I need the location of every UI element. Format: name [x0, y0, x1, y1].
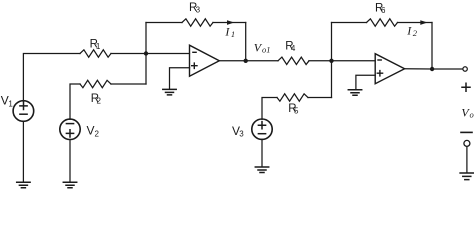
op-amp U1 minus sign [193, 51, 196, 53]
wire R5 left to V3 top [262, 98, 277, 120]
ground G3 [163, 89, 176, 95]
op-amp U1 [190, 45, 220, 76]
op-amp U2 plus sign [377, 71, 382, 76]
resistor R6 [367, 19, 398, 26]
V3 minus sign [258, 133, 265, 135]
wire feedback1 down to output node [245, 23, 247, 61]
current arrow I2 [420, 20, 427, 25]
wire R3 right segment [213, 22, 246, 24]
terminal circle bottom [464, 140, 470, 146]
svg-text:3: 3 [239, 130, 244, 139]
ground G1 [17, 182, 30, 188]
output port minus sign [461, 131, 472, 133]
svg-text:1: 1 [96, 42, 101, 51]
wire node B up to R6 [331, 23, 333, 61]
ground G4 [255, 167, 268, 173]
V3 plus sign [258, 122, 265, 129]
wire feedback2 down to output node [431, 23, 433, 70]
ground G2 [63, 182, 76, 188]
wire R1 right to op-amp minus input [111, 53, 190, 55]
voltage source V3 [252, 119, 272, 139]
svg-text:1: 1 [231, 29, 235, 39]
svg-text:3: 3 [196, 6, 201, 15]
wire R4 right to op-amp U2 minus input [309, 60, 375, 62]
wire V2 bottom to ground [69, 140, 71, 183]
op-amp U1 plus sign [192, 63, 197, 68]
wire node B down to R5 [331, 61, 333, 98]
op-amp U2 [375, 54, 404, 84]
wire output node to terminal [432, 68, 463, 70]
svg-text:2: 2 [413, 28, 418, 38]
wire V3 bottom to ground [261, 139, 263, 166]
resistor R5 [277, 94, 308, 101]
resistor R4 [278, 57, 309, 64]
svg-text:I: I [406, 23, 412, 37]
node at R4/R5/R6 junction [329, 59, 333, 63]
svg-text:6: 6 [381, 6, 386, 15]
wire R6 right segment [398, 22, 433, 24]
wire V1 top to R1 left [23, 54, 80, 101]
node at R1/R2/R3 junction [144, 51, 148, 55]
voltage source V1 [13, 101, 34, 122]
node Vo1 [244, 59, 248, 63]
svg-text:2: 2 [95, 129, 100, 138]
wire op-amp U2 output [405, 68, 432, 70]
svg-text:5: 5 [294, 107, 299, 116]
wire op-amp U1 output [219, 60, 245, 62]
resistor R2 [80, 80, 111, 87]
wire op-amp U1 plus input to ground [170, 68, 190, 89]
ground G5 [348, 90, 361, 96]
terminal circle top [463, 67, 467, 71]
svg-text:2: 2 [97, 96, 102, 105]
current arrow I1 [227, 20, 234, 25]
wire V1 bottom to ground [22, 121, 24, 182]
V2 plus sign [66, 130, 73, 137]
V1 minus sign [20, 113, 27, 115]
wire bottom terminal to ground [466, 147, 468, 173]
node at op-amp U2 output [430, 67, 434, 71]
output port plus sign [462, 83, 470, 91]
svg-text:o1: o1 [262, 45, 271, 55]
wire op-amp U2 plus input to ground [356, 75, 375, 89]
wire node to R3 corner [145, 23, 147, 54]
wire R6 top left segment [332, 22, 367, 24]
resistor R1 [80, 50, 111, 57]
wire R5 right segment [308, 97, 332, 99]
V2 minus sign [66, 123, 73, 125]
wire Vo1 node to R4 [246, 60, 278, 62]
resistor R3 [182, 19, 213, 26]
wire R2 left to V2 top [70, 84, 80, 119]
svg-text:V: V [87, 124, 95, 138]
wire R2 right to node column [111, 83, 146, 85]
V1 plus sign [20, 102, 27, 109]
wire node down to R2 [145, 54, 147, 85]
voltage source V2 [60, 119, 80, 139]
svg-text:o: o [470, 109, 474, 119]
svg-text:I: I [224, 25, 230, 39]
svg-text:1: 1 [8, 99, 13, 108]
ground G6 [460, 173, 473, 180]
wire R3 top left segment [146, 22, 182, 24]
op-amp U2 minus sign [378, 59, 381, 61]
svg-text:4: 4 [291, 44, 296, 53]
